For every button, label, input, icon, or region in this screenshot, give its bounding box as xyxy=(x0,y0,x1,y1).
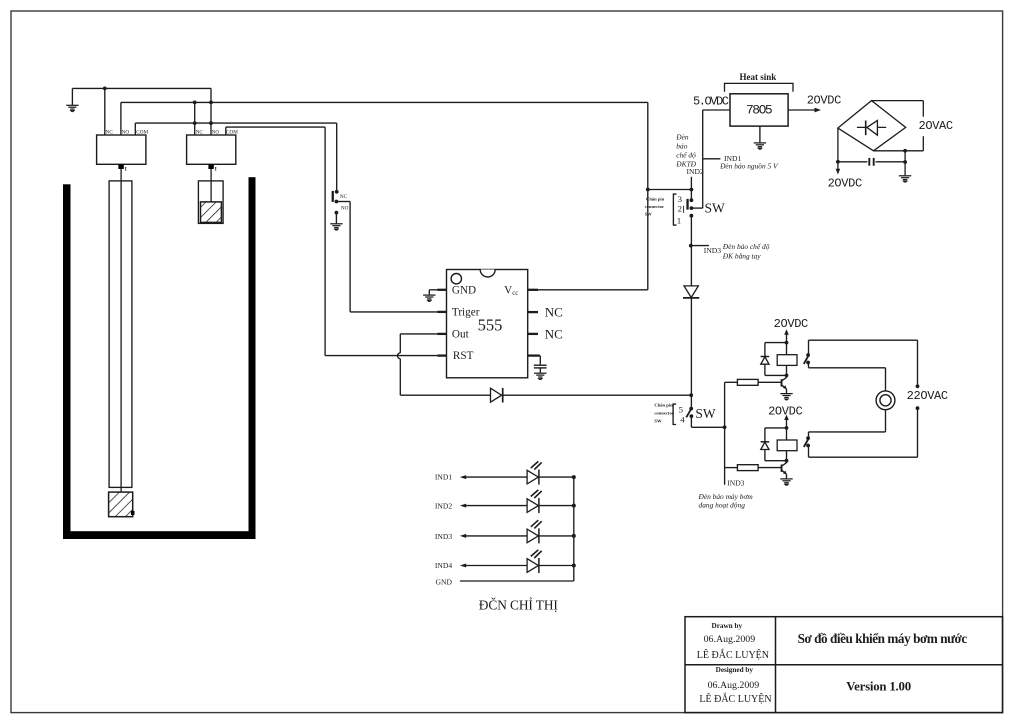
svg-text:LÊ ĐẮC LUYỆN: LÊ ĐẮC LUYỆN xyxy=(699,692,771,705)
svg-text:NC: NC xyxy=(196,130,204,136)
svg-text:2: 2 xyxy=(678,204,682,214)
svg-text:đang hoạt động: đang hoạt động xyxy=(699,500,746,509)
svg-text:NC: NC xyxy=(106,130,114,136)
svg-text:Chân pin: Chân pin xyxy=(646,196,665,201)
svg-text:RST: RST xyxy=(453,350,474,362)
svg-text:chế độ: chế độ xyxy=(676,151,696,160)
svg-text:IND4: IND4 xyxy=(435,561,452,570)
svg-text:Đèn: Đèn xyxy=(675,133,689,142)
svg-text:555: 555 xyxy=(478,316,503,335)
svg-text:I: I xyxy=(215,167,217,173)
svg-text:NC: NC xyxy=(545,305,563,320)
svg-text:GND: GND xyxy=(452,284,476,296)
svg-text:Triger: Triger xyxy=(452,307,480,319)
svg-text:2OVDC: 2OVDC xyxy=(768,405,802,419)
svg-text:ĐK bằng tay: ĐK bằng tay xyxy=(722,252,761,261)
svg-text:NC: NC xyxy=(340,194,348,200)
svg-text:2OVAC: 2OVAC xyxy=(919,119,953,133)
svg-text:Designed by: Designed by xyxy=(716,666,754,674)
svg-text:IND2: IND2 xyxy=(687,167,704,176)
svg-text:IND2: IND2 xyxy=(435,501,452,510)
svg-text:06.Aug.2009: 06.Aug.2009 xyxy=(708,680,760,691)
svg-text:Chân pin: Chân pin xyxy=(654,403,673,408)
svg-text:Version 1.00: Version 1.00 xyxy=(846,679,911,693)
svg-text:Đèn báo chế độ: Đèn báo chế độ xyxy=(722,242,770,251)
svg-text:22OVAC: 22OVAC xyxy=(907,389,948,403)
svg-text:1: 1 xyxy=(677,215,681,225)
svg-text:connector: connector xyxy=(645,204,664,209)
svg-text:Đèn báo nguồn 5 V: Đèn báo nguồn 5 V xyxy=(719,161,779,170)
svg-text:IND3: IND3 xyxy=(727,478,744,487)
svg-text:LÊ ĐẮC LUYỆN: LÊ ĐẮC LUYỆN xyxy=(697,648,769,661)
svg-text:5.OVDC: 5.OVDC xyxy=(693,94,729,108)
svg-text:06.Aug.2009: 06.Aug.2009 xyxy=(704,634,756,645)
svg-text:Sơ đồ điều khiển máy bơm nước: Sơ đồ điều khiển máy bơm nước xyxy=(798,631,968,646)
svg-text:NO: NO xyxy=(341,206,349,212)
svg-text:78O5: 78O5 xyxy=(746,102,772,117)
svg-text:Out: Out xyxy=(452,329,470,341)
svg-text:COM: COM xyxy=(136,130,148,136)
svg-text:Drawn by: Drawn by xyxy=(712,622,743,630)
svg-text:GND: GND xyxy=(436,577,453,586)
svg-text:connector: connector xyxy=(654,410,673,415)
svg-text:4: 4 xyxy=(680,415,685,425)
svg-text:ĐČN CHỈ THỊ: ĐČN CHỈ THỊ xyxy=(479,597,558,612)
svg-text:2OVDC: 2OVDC xyxy=(828,176,862,190)
svg-text:2OVDC: 2OVDC xyxy=(774,317,808,331)
svg-text:NO: NO xyxy=(212,130,220,136)
svg-text:5: 5 xyxy=(679,404,684,414)
svg-text:SW: SW xyxy=(645,212,653,217)
svg-text:IND3: IND3 xyxy=(435,532,452,541)
svg-text:báo: báo xyxy=(676,142,687,151)
svg-text:NC: NC xyxy=(545,326,563,341)
svg-text:I: I xyxy=(125,167,127,173)
svg-text:SW: SW xyxy=(695,406,716,421)
svg-text:IND3: IND3 xyxy=(704,246,721,255)
svg-text:Heat sink: Heat sink xyxy=(740,72,777,82)
svg-text:3: 3 xyxy=(678,194,683,204)
svg-text:SW: SW xyxy=(705,200,726,215)
svg-text:COM: COM xyxy=(226,130,238,136)
svg-text:NO: NO xyxy=(122,130,130,136)
svg-text:SW: SW xyxy=(654,419,662,424)
svg-text:2OVDC: 2OVDC xyxy=(807,93,841,107)
svg-text:IND1: IND1 xyxy=(435,473,452,482)
